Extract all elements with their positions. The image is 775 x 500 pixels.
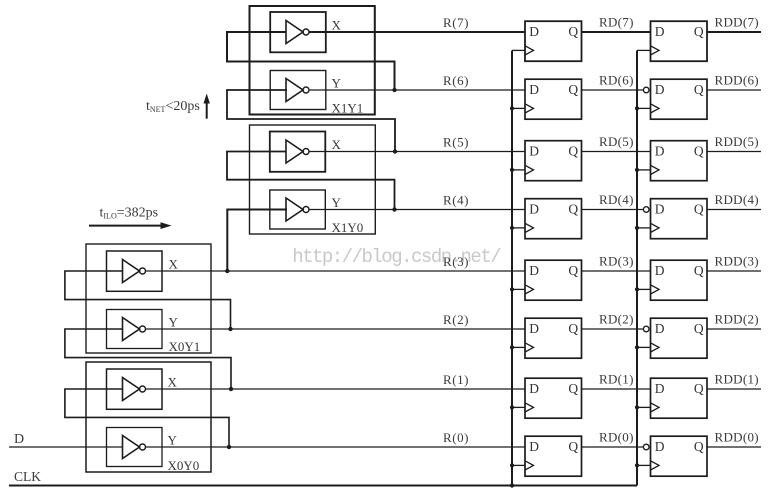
- inverter Y of X0Y1: [123, 318, 146, 341]
- svg-text:X: X: [169, 257, 179, 272]
- inverter X of X0Y0: [123, 378, 146, 401]
- svg-text:RD(5): RD(5): [599, 134, 634, 149]
- wire RD(4): [582, 209, 644, 211]
- wire RD(0): [582, 446, 644, 448]
- inverter X cell box of X1Y1: [270, 12, 326, 52]
- junction on R(1) at feedback tap: [229, 387, 233, 391]
- wire RDD(2): [707, 328, 761, 330]
- svg-text:X: X: [168, 375, 178, 390]
- svg-text:Q: Q: [694, 439, 704, 454]
- wire X1Y1 Y input (from R(5) feedback): [227, 90, 395, 152]
- svg-text:tILO=382ps: tILO=382ps: [100, 206, 159, 221]
- svg-text:X1Y1: X1Y1: [332, 100, 364, 115]
- wire X1Y0 Y input (from R(3) feedback): [227, 210, 287, 272]
- svg-text:D: D: [655, 439, 665, 454]
- svg-text:X: X: [332, 137, 342, 152]
- svg-text:R(1): R(1): [443, 372, 469, 387]
- clock branch to U23: [637, 288, 651, 290]
- inverter Y cell box of X0Y0: [107, 428, 163, 467]
- clock bus column 2: [636, 51, 638, 486]
- junction clock bus 2 row R(3): [635, 287, 639, 291]
- D flip-flop U16 (column 1, R(6)): [525, 79, 582, 119]
- svg-text:D: D: [529, 439, 539, 454]
- wire RDD(6): [707, 89, 761, 91]
- wire RD(1): [582, 388, 651, 390]
- wire X0Y0 X input (from R(0) feedback): [65, 389, 229, 447]
- wire RD(3): [582, 270, 651, 272]
- clock branch to U21: [637, 406, 651, 408]
- svg-text:D: D: [529, 143, 539, 158]
- junction clock bus 1 row R(1): [510, 405, 514, 409]
- D flip-flop U13 (column 1, R(3)): [525, 260, 582, 300]
- svg-text:Q: Q: [694, 143, 704, 158]
- D flip-flop U26 (column 2, RD(6)): [651, 79, 708, 119]
- junction clock bus 2 row R(1): [635, 405, 639, 409]
- D flip-flop U21 (column 2, RD(1)): [651, 378, 708, 418]
- wire RD(5): [582, 151, 651, 153]
- junction on R(3) at feedback tap: [225, 269, 229, 273]
- svg-text:Q: Q: [568, 381, 578, 396]
- svg-text:RDD(0): RDD(0): [715, 430, 759, 445]
- wire R(0): [146, 446, 526, 448]
- inverter X cell box of X0Y0: [107, 369, 163, 409]
- svg-text:RDD(7): RDD(7): [715, 15, 759, 30]
- inverter bubble on U22 D input: [643, 326, 649, 332]
- clock branch to U17: [512, 49, 525, 51]
- wire RDD(5): [707, 151, 761, 153]
- inverter X of X1Y1: [286, 21, 309, 44]
- inverter Y cell box of X1Y0: [270, 190, 326, 229]
- inverter Y of X0Y0: [123, 436, 146, 459]
- wire CLK line: [9, 485, 637, 487]
- wire R(2): [146, 328, 526, 330]
- wire RDD(3): [707, 270, 761, 272]
- svg-text:D: D: [529, 201, 539, 216]
- D flip-flop U12 (column 1, R(2)): [525, 318, 582, 358]
- wire R(5): [309, 151, 525, 153]
- arrow up (tNET): [206, 101, 208, 119]
- junction on R(0) at feedback tap: [227, 445, 231, 449]
- junction clock bus 2 row R(5): [635, 168, 639, 172]
- svg-text:RD(0): RD(0): [599, 430, 634, 445]
- wire X0Y1 Y input (from R(1) feedback): [65, 329, 231, 389]
- inverter X cell box of X1Y0: [270, 132, 326, 172]
- D flip-flop U24 (column 2, RD(4)): [651, 199, 708, 239]
- svg-text:Y: Y: [168, 433, 178, 448]
- svg-text:RD(4): RD(4): [599, 192, 634, 207]
- clock branch to U14: [512, 227, 525, 229]
- inverter X cell box of X0Y1: [107, 251, 163, 291]
- clock branch to U20: [637, 464, 651, 466]
- junction clock bus 2 row R(2): [635, 345, 639, 349]
- svg-text:Y: Y: [332, 195, 342, 210]
- junction clock bus 1 row R(6): [510, 106, 514, 110]
- D flip-flop U14 (column 1, R(4)): [525, 199, 582, 239]
- D flip-flop U11 (column 1, R(1)): [525, 378, 582, 418]
- svg-text:D: D: [14, 432, 24, 447]
- svg-text:D: D: [529, 24, 539, 39]
- clock branch to U24: [637, 227, 651, 229]
- svg-text:D: D: [655, 321, 665, 336]
- svg-text:R(0): R(0): [443, 430, 469, 445]
- ILO block X1Y0 outer box: [250, 125, 376, 234]
- svg-text:RD(3): RD(3): [599, 254, 634, 269]
- inverter Y cell box of X0Y1: [107, 310, 163, 349]
- svg-text:Q: Q: [694, 263, 704, 278]
- svg-text:R(2): R(2): [443, 312, 469, 327]
- wire RDD(4): [707, 209, 761, 211]
- svg-text:Y: Y: [169, 315, 179, 330]
- inverter Y cell box of X1Y1: [270, 71, 326, 110]
- svg-text:Q: Q: [694, 24, 704, 39]
- inverter bubble on U24 D input: [643, 207, 649, 213]
- wire D input to X0Y0 Y inverter: [9, 446, 123, 448]
- D flip-flop U25 (column 2, RD(5)): [651, 141, 708, 181]
- svg-text:Q: Q: [694, 201, 704, 216]
- svg-text:Q: Q: [568, 321, 578, 336]
- svg-text:Y: Y: [332, 76, 342, 91]
- wire RD(2): [582, 328, 644, 330]
- clock branch to U10: [512, 464, 525, 466]
- junction clock bus 1 row R(3): [510, 287, 514, 291]
- wire R(3): [146, 270, 526, 272]
- svg-text:D: D: [655, 263, 665, 278]
- svg-text:RD(6): RD(6): [599, 73, 634, 88]
- junction on R(4) at feedback tap: [392, 207, 396, 211]
- D flip-flop U23 (column 2, RD(3)): [651, 260, 708, 300]
- svg-text:tNET<20ps: tNET<20ps: [146, 99, 200, 114]
- clock branch to U13: [512, 288, 525, 290]
- inverter Y of X1Y1: [286, 79, 309, 102]
- wire X1Y0 X input (from R(4) feedback): [227, 152, 395, 210]
- ILO block X0Y0 outer box: [86, 362, 211, 472]
- svg-text:R(6): R(6): [443, 73, 469, 88]
- svg-text:RD(1): RD(1): [599, 372, 634, 387]
- inverter X of X0Y1: [123, 260, 146, 283]
- svg-text:RD(7): RD(7): [599, 15, 634, 30]
- wire RD(7): [582, 31, 651, 33]
- wire RDD(0): [707, 446, 761, 448]
- D flip-flop U22 (column 2, RD(2)): [651, 318, 708, 358]
- svg-text:RDD(2): RDD(2): [715, 312, 759, 327]
- wire R(6): [309, 89, 525, 91]
- D flip-flop U27 (column 2, RD(7)): [651, 21, 708, 61]
- svg-text:D: D: [655, 143, 665, 158]
- svg-text:Q: Q: [568, 201, 578, 216]
- inverter X of X1Y0: [286, 140, 309, 163]
- svg-text:Q: Q: [568, 439, 578, 454]
- wire RDD(7): [707, 31, 761, 33]
- svg-text:X0Y1: X0Y1: [169, 339, 201, 354]
- svg-text:Q: Q: [568, 24, 578, 39]
- ILO block X1Y1 outer box: [250, 6, 375, 115]
- svg-text:RDD(6): RDD(6): [715, 73, 759, 88]
- junction on R(2) at feedback tap: [228, 327, 232, 331]
- svg-text:D: D: [655, 381, 665, 396]
- ILO block X0Y1 outer box: [86, 244, 211, 353]
- clock branch to U25: [637, 169, 651, 171]
- svg-text:X0Y0: X0Y0: [168, 458, 200, 473]
- inverter bubble on U26 D input: [643, 87, 649, 93]
- D flip-flop U17 (column 1, R(7)): [525, 21, 582, 61]
- wire X1Y1 X input (from R(6) feedback): [227, 32, 395, 90]
- svg-text:Q: Q: [568, 143, 578, 158]
- svg-text:D: D: [655, 24, 665, 39]
- junction clock bus 1 row R(4): [510, 226, 514, 230]
- svg-text:R(5): R(5): [443, 135, 469, 150]
- junction clock bus 1 row R(5): [510, 168, 514, 172]
- clock bus column 1: [511, 51, 513, 486]
- junction clock bus 1 row R(2): [510, 345, 514, 349]
- svg-text:D: D: [529, 321, 539, 336]
- clock branch to U11: [512, 406, 525, 408]
- wire R(1): [146, 388, 526, 390]
- svg-text:RDD(3): RDD(3): [715, 254, 759, 269]
- wire R(7): [309, 31, 525, 33]
- wire RDD(1): [707, 388, 761, 390]
- svg-text:D: D: [655, 201, 665, 216]
- arrow right (tILO): [89, 225, 163, 227]
- junction clock bus 2 row R(4): [635, 226, 639, 230]
- svg-text:Q: Q: [568, 82, 578, 97]
- inverter bubble on U20 D input: [643, 444, 649, 450]
- clock branch to U12: [512, 346, 525, 348]
- svg-text:RDD(1): RDD(1): [715, 372, 759, 387]
- svg-text:D: D: [529, 381, 539, 396]
- clock branch to U15: [512, 169, 525, 171]
- junction on R(6) at feedback tap: [392, 88, 396, 92]
- clock branch to U16: [512, 107, 525, 109]
- D flip-flop U10 (column 1, R(0)): [525, 436, 582, 476]
- svg-text:RDD(4): RDD(4): [715, 192, 759, 207]
- svg-text:RD(2): RD(2): [599, 312, 634, 327]
- D flip-flop U15 (column 1, R(5)): [525, 141, 582, 181]
- svg-text:R(4): R(4): [443, 193, 469, 208]
- clock branch to U26: [637, 107, 651, 109]
- svg-text:R(7): R(7): [443, 15, 469, 30]
- svg-text:X1Y0: X1Y0: [332, 220, 364, 235]
- junction clock bus 1 with CLK line: [510, 483, 514, 487]
- clock branch to U27: [637, 49, 651, 51]
- svg-text:D: D: [529, 263, 539, 278]
- junction on R(5) at feedback tap: [393, 149, 397, 153]
- svg-text:http://blog.csdn.net/: http://blog.csdn.net/: [292, 246, 501, 268]
- svg-text:Q: Q: [694, 381, 704, 396]
- inverter Y of X1Y0: [286, 198, 309, 221]
- junction clock bus 1 row R(0): [510, 463, 514, 467]
- wire R(4): [309, 209, 525, 211]
- svg-text:RDD(5): RDD(5): [715, 134, 759, 149]
- svg-text:CLK: CLK: [14, 469, 41, 484]
- svg-text:Q: Q: [694, 321, 704, 336]
- junction clock bus 2 row R(6): [635, 106, 639, 110]
- svg-text:R(3): R(3): [443, 254, 469, 269]
- svg-text:X: X: [332, 18, 342, 33]
- wire X0Y1 X input (from R(2) feedback): [65, 271, 231, 329]
- junction clock bus 2 row R(0): [635, 463, 639, 467]
- svg-text:D: D: [529, 82, 539, 97]
- D flip-flop U20 (column 2, RD(0)): [651, 436, 708, 476]
- svg-text:Q: Q: [694, 82, 704, 97]
- wire RD(6): [582, 89, 644, 91]
- svg-text:Q: Q: [568, 263, 578, 278]
- clock branch to U22: [637, 346, 651, 348]
- svg-text:D: D: [655, 82, 665, 97]
